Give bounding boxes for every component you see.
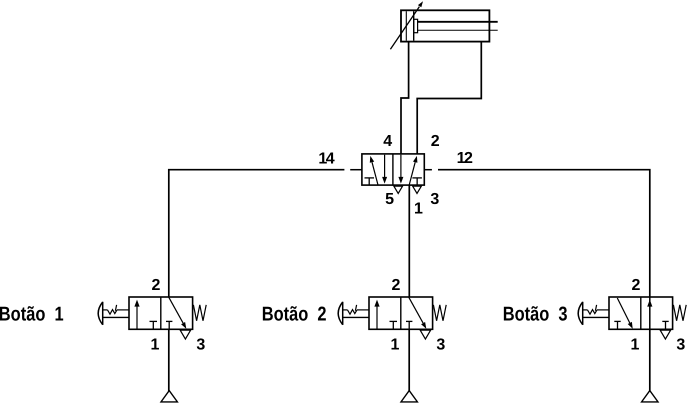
wire: cylinder right port to valve V1 port 2 — [417, 42, 481, 155]
valve V1 5/2-way double pilot valve body — [362, 154, 424, 185]
svg-text:Botão 2: Botão 2 — [262, 304, 327, 326]
wire: V3 port 1 to supply — [408, 329, 410, 391]
valve V4 Botao 3 3/2 push-button valve body — [609, 297, 673, 329]
V2 right position arrow 2 to 3 — [169, 297, 187, 329]
pilot line 14 from valve V2 (Botao 1) — [169, 170, 345, 297]
svg-text:3: 3 — [436, 336, 445, 353]
svg-text:3: 3 — [430, 191, 439, 208]
V2 exhaust triangle port 3 — [180, 330, 190, 339]
V3 right position arrow 2 to 3 — [409, 297, 427, 329]
V3 push button actuator — [338, 302, 369, 325]
svg-text:5: 5 — [385, 191, 394, 208]
wire: V4 port 1 to supply — [649, 329, 651, 391]
svg-text:1: 1 — [391, 336, 400, 353]
V1 exhaust triangle port 5 — [394, 186, 403, 193]
valve V3 Botao 2 3/2 push-button valve body — [369, 297, 433, 329]
svg-text:2: 2 — [392, 277, 401, 294]
V4 left position blocked port 1 — [614, 321, 620, 329]
cushioning adjustment arrow over cylinder — [390, 1, 423, 49]
svg-text:14: 14 — [318, 150, 334, 167]
V4 right position arrow 1 to 2 passage line — [649, 297, 651, 329]
V3 right position blocked port 1 — [406, 321, 412, 329]
V1 right position arrow 4 to 5 — [398, 155, 403, 184]
svg-text:1: 1 — [631, 336, 640, 353]
compressed air supply under V3 — [401, 391, 417, 402]
V4 push button actuator — [578, 302, 609, 325]
V2 push button actuator — [98, 302, 129, 325]
V1 right position arrow 1 to 2 — [409, 156, 417, 185]
V2 return spring — [193, 305, 206, 321]
svg-text:1: 1 — [151, 336, 160, 353]
V1 left position blocked port 5 — [365, 178, 375, 185]
svg-text:12: 12 — [457, 150, 473, 167]
wire: cylinder left port to valve V1 port 4 — [401, 42, 409, 155]
V1 pilot port 12 stub — [424, 169, 432, 171]
V1 right position blocked port 3 — [412, 178, 422, 185]
V4 exhaust triangle port 3 — [660, 330, 670, 339]
V2 left position blocked port 3 — [150, 321, 158, 329]
cylinder A1 double-acting with adjustable cushioning — [401, 10, 498, 41]
V1 left position arrow 1 to 4 — [370, 156, 378, 185]
wire: V2 port 1 to supply — [168, 329, 170, 391]
V4 left position arrow 2 to 3 — [617, 298, 632, 329]
compressed air supply under V2 — [161, 391, 177, 402]
V1 left position arrow 2 to 3 — [382, 155, 387, 184]
V4 right position arrowhead up — [647, 300, 652, 307]
V3 exhaust triangle port 3 — [420, 330, 430, 339]
V2 left position arrow 1 to 2 — [134, 300, 139, 329]
svg-text:4: 4 — [383, 133, 392, 150]
pilot line 12 from valve V4 (Botao 3) — [438, 170, 650, 297]
wire: V1 port 1 down to valve V3 (Botao 2) port 2 — [408, 185, 410, 297]
svg-text:2: 2 — [632, 277, 641, 294]
svg-text:3: 3 — [676, 336, 685, 353]
compressed air supply under V4 — [642, 391, 658, 402]
V1 exhaust triangle port 3 — [413, 186, 422, 193]
svg-text:2: 2 — [152, 277, 161, 294]
V4 return spring — [673, 305, 686, 321]
valve V2 Botao 1 3/2 push-button valve body — [129, 297, 193, 329]
svg-text:Botão 3: Botão 3 — [503, 304, 568, 326]
V3 left position blocked port 3 — [390, 321, 398, 329]
V3 left position arrow 1 to 2 — [374, 300, 379, 329]
V1 pilot port 14 stub — [350, 169, 362, 171]
svg-text:3: 3 — [196, 336, 205, 353]
V2 right position blocked port 1 — [166, 321, 172, 329]
V4 right position blocked port 3 — [662, 321, 668, 329]
svg-text:Botão 1: Botão 1 — [0, 304, 64, 326]
svg-text:2: 2 — [431, 133, 440, 150]
svg-text:1: 1 — [414, 200, 423, 217]
V3 return spring — [433, 305, 446, 321]
